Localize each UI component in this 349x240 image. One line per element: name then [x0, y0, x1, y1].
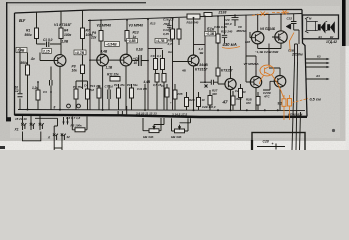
annotation leader line [293, 99, 309, 103]
wire left col C2 [19, 48, 21, 110]
junction dots bus [59, 109, 279, 112]
label C18 0.25 [214, 25, 233, 34]
label 5.8 [90, 88, 94, 92]
resistor R7 [81, 28, 85, 39]
svg-text:47: 47 [222, 100, 229, 105]
svg-text:2,4В: 2,4В [16, 49, 25, 53]
wires row extra [167, 84, 241, 110]
resistor R14b [117, 88, 121, 98]
svg-text:А3: А3 [315, 74, 320, 78]
node X cross [205, 85, 208, 88]
svg-text:4,4В: 4,4В [100, 50, 108, 54]
svg-text:С28: С28 [263, 139, 269, 143]
svg-text:560к: 560к [21, 61, 28, 65]
wire h y56 right [246, 56, 256, 76]
svg-text:≈0,7В: ≈0,7В [75, 51, 85, 55]
label R3 560k [21, 61, 28, 65]
svg-text:300: 300 [212, 92, 217, 96]
label C22 [287, 17, 293, 21]
svg-text:R1В 240: R1В 240 [187, 21, 199, 25]
svg-text:21З8: 21З8 [218, 11, 227, 15]
svg-text:22к: 22к [90, 36, 97, 40]
label 628 [245, 36, 281, 45]
svg-text:С9: С9 [161, 84, 165, 88]
capacitor C16 [167, 20, 172, 32]
svg-text:10: 10 [134, 61, 138, 65]
resistor row extra a [165, 88, 169, 97]
label C27 4GS [263, 91, 272, 99]
wire V4 base [173, 61, 192, 63]
svg-text:НВ 33д: НВ 33д [143, 135, 154, 139]
callout 2.1V [42, 49, 52, 54]
svg-text:−0,54В: −0,54В [106, 43, 118, 47]
label M terminal [309, 17, 312, 21]
svg-text:−1,4В С24В 6М2: −1,4В С24В 6М2 [255, 50, 279, 54]
wires R12 [172, 118, 191, 131]
scan dot right [332, 129, 335, 132]
wire col x246 [245, 15, 247, 56]
svg-text:R1: R1 [26, 29, 30, 33]
resistor R15 col [161, 59, 165, 70]
resistor R4 [59, 28, 63, 39]
svg-text:15 20 49: 15 20 49 [15, 117, 27, 121]
labels mid bottom [90, 83, 147, 91]
connector X2 contacts [53, 134, 66, 142]
svg-text:1,8В: 1,8В [62, 40, 69, 44]
labels under V5 [212, 89, 241, 97]
label 4V [181, 69, 187, 73]
label 1.1V [106, 66, 113, 70]
annotation wire top right [290, 33, 295, 52]
resistor R13 [125, 31, 129, 42]
wire pin49 [35, 118, 58, 133]
orange resistor leads [284, 95, 290, 120]
label V6 P214B [260, 27, 276, 31]
paper grain [0, 0, 349, 141]
wire col right pair [295, 44, 298, 62]
callout 2.4V [16, 48, 27, 53]
wire C1 [37, 43, 62, 45]
orange resistor Ra [282, 99, 286, 107]
label C16 [163, 18, 174, 27]
annotation wire down-left [260, 76, 264, 85]
resistor mid C3 [97, 88, 101, 98]
annotation wire down-right [272, 75, 284, 98]
top supply bus wire [88, 14, 302, 21]
annotation 9.1 [278, 102, 283, 106]
bottom common bus wire [18, 110, 305, 111]
callout -0.54V [105, 42, 120, 47]
pin numbers mid [66, 116, 81, 120]
wire V5 leads [230, 66, 232, 110]
label 8.1V [136, 48, 143, 52]
capacitor block C28 box [252, 133, 305, 153]
svg-text:10: 10 [15, 86, 19, 90]
resistor R28 [185, 98, 189, 107]
wire V2-V3 coupling [109, 60, 127, 110]
label IP003BM [288, 112, 303, 116]
annotation 430 mA [222, 42, 237, 47]
annotation 51k [207, 27, 215, 32]
frame right edge [302, 10, 307, 117]
svg-text:−0,3В: −0,3В [206, 32, 215, 36]
wire inside C28 [257, 144, 285, 150]
svg-text:100: 100 [246, 101, 251, 105]
svg-text:V2 МП40: V2 МП40 [97, 24, 112, 28]
wire col R13 [126, 20, 128, 54]
svg-text:430 мА: 430 мА [222, 42, 237, 47]
callout 0.7V [74, 50, 86, 55]
resistor R17 [155, 74, 159, 83]
wire V2 base [90, 59, 100, 61]
wire V1 base [40, 53, 58, 61]
label C3 [43, 90, 47, 94]
scan mark bottom left [0, 146, 5, 149]
label V8 MP26A [237, 25, 247, 33]
svg-text:Р14 47к: Р14 47к [114, 83, 125, 87]
svg-text:С22: С22 [287, 17, 293, 21]
wire col R1 [36, 12, 38, 44]
transistor V10 [274, 76, 286, 88]
resistor R8 [81, 65, 85, 74]
annotation cross 2 [283, 10, 287, 14]
svg-text:10к: 10к [72, 69, 78, 73]
svg-text:2250м: 2250м [291, 53, 303, 57]
svg-text:0,25: 0,25 [163, 32, 169, 36]
resistor R20 col a [171, 29, 175, 39]
svg-text:R13: R13 [133, 31, 139, 35]
diode V11 [286, 24, 291, 29]
svg-text:100,0: 100,0 [224, 22, 232, 26]
svg-text:63В: 63В [275, 36, 281, 40]
svg-text:V3 МП40: V3 МП40 [129, 24, 144, 28]
orange resistor Rb [288, 99, 292, 107]
svg-text:К3: К3 [317, 55, 321, 59]
resistor R14 col [154, 59, 158, 70]
wire col x205 [204, 16, 206, 82]
frame left edge [14, 13, 16, 115]
svg-text:Л16: Л16 [163, 22, 170, 26]
callout 1.7V [155, 39, 167, 43]
capacitor C7 [108, 90, 110, 100]
svg-text:51к: 51к [207, 27, 215, 32]
capacitor C2 [18, 94, 23, 97]
callout -0.3V [205, 32, 216, 36]
wires R23 [217, 16, 219, 68]
resistor R31 [231, 96, 235, 105]
wires R20 R21 [173, 18, 180, 62]
svg-text:КТ315Г: КТ315Г [195, 68, 208, 72]
annotation 2250m [291, 53, 303, 57]
speaker terminal strip [305, 17, 308, 33]
wire h V10 top [263, 68, 280, 90]
svg-text:ИП00ЗБМ: ИП00ЗБМ [288, 112, 303, 116]
wire V1 emitter [59, 66, 61, 109]
wire V4 emitter [193, 66, 195, 110]
svg-text:МП26А: МП26А [237, 29, 247, 33]
junction rings [67, 104, 71, 108]
label X1 [14, 128, 19, 132]
connector X1 contacts [21, 123, 44, 130]
wire h y48 [148, 48, 163, 50]
wires R14-R18 [156, 48, 165, 110]
loudspeaker BA1 [318, 21, 326, 33]
wire V6a leads [250, 15, 258, 49]
svg-text:Др: Др [30, 57, 35, 61]
resistor R24 [216, 68, 220, 76]
paper background [0, 0, 349, 150]
svg-text:0,5 см: 0,5 см [310, 97, 321, 101]
svg-text:Р9 75к: Р9 75к [73, 85, 83, 89]
resistor row extra c [239, 89, 243, 98]
svg-text:2,15: 2,15 [42, 50, 50, 54]
potentiometer R10 [149, 129, 159, 133]
labels cluster C15 [151, 54, 162, 87]
svg-text:С1В: С1В [288, 49, 295, 53]
wire V2 emitter [102, 66, 104, 110]
svg-text:560к: 560к [25, 33, 33, 37]
scan edge left bracket [6, 2, 7, 121]
wires bottom row resistors [187, 90, 259, 110]
svg-text:КТ315Г: КТ315Г [221, 68, 234, 72]
wires mid stubs [118, 106, 127, 116]
wires R10 [143, 118, 164, 131]
scan edge bracket foot [6, 117, 11, 121]
callout -0.58V [127, 39, 138, 43]
transistor V5 [225, 78, 236, 89]
svg-text:8: 8 [54, 106, 56, 110]
annotation dashed cut line [252, 12, 290, 15]
svg-text:10: 10 [202, 98, 206, 102]
node R3 top [27, 53, 29, 66]
wires mid bottom [99, 84, 145, 110]
wire col x269 [268, 14, 270, 65]
resistor R9a [74, 89, 78, 99]
capacitor C22 [291, 14, 299, 45]
scan edge right black bar [342, 0, 346, 46]
wire C5 [132, 60, 148, 62]
label K3 [315, 55, 321, 79]
svg-text:R2В: R2В [189, 98, 195, 102]
capacitor C5 [139, 55, 142, 66]
label R8 10k [72, 65, 78, 73]
wire C19 [200, 81, 218, 83]
annotation 47 [222, 100, 229, 105]
svg-text:628: 628 [245, 40, 250, 44]
label 2138 [218, 11, 227, 15]
svg-text:−0,5В: −0,5В [127, 39, 136, 43]
transistor V6b [275, 31, 287, 43]
wire R3 down [27, 75, 29, 110]
wire col R7 [82, 10, 84, 65]
svg-text:10: 10 [243, 90, 247, 94]
svg-text:4,4В: 4,4В [143, 80, 151, 84]
svg-text:R7: R7 [86, 29, 90, 33]
transistor V3 [120, 54, 132, 66]
label 1GD-42 [326, 40, 337, 44]
svg-text:4ГС: 4ГС [263, 95, 271, 99]
capacitor C19 [211, 80, 213, 85]
resistor R11 [110, 77, 120, 82]
wire V4 collector branch [194, 44, 206, 46]
frame top edge [15, 10, 303, 14]
label B1 B2 [319, 35, 334, 39]
resistor R18 [162, 74, 166, 83]
label V7 MP26A [244, 62, 260, 66]
transistor V6a [252, 32, 264, 44]
svg-text:В2: В2 [330, 35, 334, 39]
capacitor C5a [50, 80, 53, 86]
label 4.4V top [100, 50, 108, 54]
svg-text:1,2к: 1,2к [32, 86, 38, 90]
wire V9 leads [246, 56, 256, 110]
speaker box [303, 15, 339, 39]
connector X2 wires down [54, 141, 62, 150]
wire to speakers [307, 21, 328, 30]
wires R9a C4 [76, 81, 88, 110]
connector X1 bracket [23, 132, 41, 141]
annotation transistor sketch [260, 65, 274, 76]
label R7 100k [86, 29, 94, 38]
wire col C17 [224, 16, 226, 43]
wire col x90 [89, 20, 91, 109]
svg-text:С2: С2 [15, 89, 19, 93]
labels bottom row [189, 97, 252, 109]
label R12 [149, 22, 156, 26]
resistor R23 [216, 34, 220, 43]
scan edge top mark [6, 2, 146, 3]
label R13 1k [133, 31, 139, 40]
svg-text:С11 0,5: С11 0,5 [137, 87, 147, 91]
capacitor C20 [232, 18, 239, 20]
label R19 240 [187, 21, 199, 25]
svg-text:9,1: 9,1 [278, 102, 283, 106]
label V2 MP40 [97, 24, 112, 28]
loudspeaker BA2 [327, 21, 335, 33]
svg-text:2в 344В: 2в 344В [193, 63, 208, 67]
wire V4 collector [193, 18, 195, 55]
labels under V6 [255, 50, 279, 54]
resistor R22 on bus [204, 13, 212, 17]
wire col R9 [100, 20, 102, 54]
svg-text:С1 5,0: С1 5,0 [43, 38, 53, 42]
resistor R15b [130, 88, 134, 98]
wire x172 down [172, 62, 174, 110]
label Dr1 [30, 57, 35, 61]
svg-text:Х1: Х1 [14, 128, 19, 132]
svg-text:Р25: Р25 [178, 92, 183, 96]
pin numbers row2 [136, 111, 157, 115]
resistor C4 [86, 89, 90, 99]
resistor row extra b [173, 90, 177, 99]
potentiometer R12 [175, 129, 185, 133]
svg-text:4В: 4В [181, 69, 187, 73]
svg-text:100к: 100к [64, 33, 72, 37]
resistor R5 1.2k [36, 90, 40, 100]
svg-text:R4: R4 [64, 29, 68, 33]
labels R9a C4 [73, 84, 88, 90]
resistor R32 [256, 97, 260, 106]
wire C20 [234, 15, 236, 26]
svg-text:Р9: Р9 [92, 31, 96, 35]
wire R5 leads [37, 82, 39, 110]
svg-text:3 14,5 17,5: 3 14,5 17,5 [172, 113, 187, 117]
annotation 0.5 cm [310, 97, 321, 101]
label R11 22k [107, 73, 119, 77]
transistor V9 [250, 76, 261, 87]
svg-text:БУ: БУ [19, 18, 26, 23]
label R16 2.7k [167, 39, 174, 47]
jack arrows [64, 117, 68, 125]
label R1 560k [25, 29, 33, 38]
svg-text:1,1В: 1,1В [106, 66, 113, 70]
label 4.4 over V4 [198, 47, 205, 55]
pin numbers row3 [172, 113, 187, 117]
svg-text:+: + [272, 142, 274, 146]
label C28 [263, 139, 274, 146]
label X2 [47, 135, 70, 140]
svg-text:R22 240: R22 240 [221, 30, 233, 34]
wire V6b leads [258, 14, 281, 48]
resistor R30 [208, 96, 212, 106]
svg-text:R11 22к: R11 22к [107, 73, 119, 77]
resistor R5 100k [75, 128, 85, 132]
label C14 0.25 [163, 28, 169, 36]
svg-text:С2В 100,0: С2В 100,0 [202, 105, 216, 109]
svg-text:0,6 6,7 1,8: 0,6 6,7 1,8 [66, 116, 81, 120]
svg-text:В1: В1 [319, 35, 323, 39]
wire V10 leads [270, 68, 280, 110]
transistor V2 [97, 54, 109, 66]
svg-text:V1 КТ315Г: V1 КТ315Г [54, 23, 72, 27]
label 4.4V [143, 80, 151, 84]
label V3 MP40 [129, 24, 144, 28]
resistor R21 col b [177, 29, 181, 39]
svg-text:С3: С3 [43, 90, 47, 94]
arrowheads out lines [327, 58, 330, 80]
resistor R3 [26, 65, 30, 75]
svg-text:НВ 33д: НВ 33д [171, 135, 182, 139]
svg-text:8,1В: 8,1В [136, 48, 143, 52]
junction dots mid [27, 42, 232, 111]
resistor R29 [197, 98, 201, 107]
annotation KT315G small [221, 68, 234, 72]
capacitor C1 [47, 42, 49, 48]
label 0m cluster [168, 50, 173, 54]
wire out lines right [306, 59, 327, 79]
svg-text:V6 П214Б: V6 П214Б [260, 27, 276, 31]
connector X1 pin wires [23, 116, 41, 123]
annotation 2V 344V [193, 63, 208, 72]
label C1 5.0 [43, 38, 69, 44]
pin numbers left [15, 117, 27, 121]
capacitor C17 [222, 35, 227, 37]
svg-text:1ГД-42: 1ГД-42 [326, 40, 337, 44]
wire col x148 [147, 19, 149, 110]
label C2 10 [15, 86, 19, 94]
label C20 100.0 [224, 18, 232, 26]
resistor R19 on bus [187, 14, 200, 19]
wires to bottom right exit [292, 62, 301, 150]
wire R24 to V5 base [218, 76, 225, 84]
wires R5 [72, 117, 87, 130]
labels row extra [161, 84, 246, 105]
transistor V1 [54, 55, 66, 67]
wire R8 down [82, 74, 84, 90]
svg-text:3 6 10 11 12 13: 3 6 10 11 12 13 [136, 111, 157, 115]
label R9 22k [90, 31, 97, 40]
resistor R9 [99, 31, 103, 42]
